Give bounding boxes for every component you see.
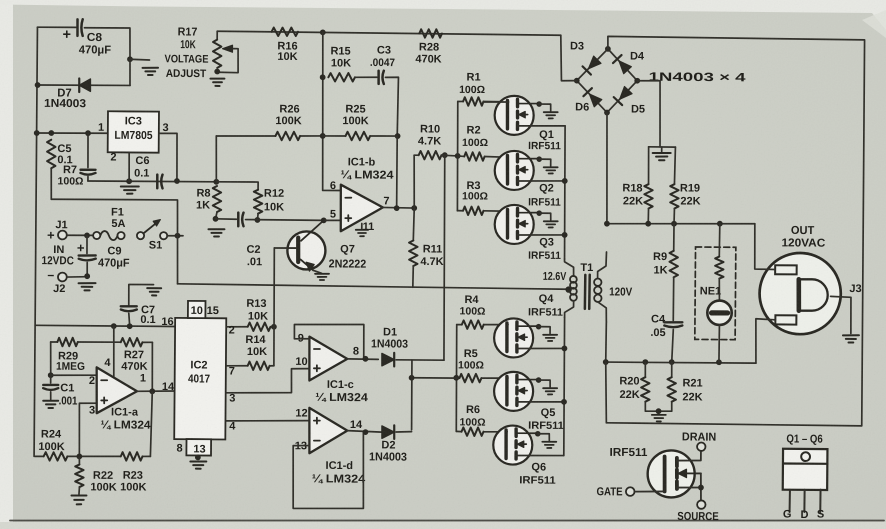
capacitor C9 — [86, 235, 88, 253]
connector gate — [626, 487, 635, 496]
dashed box NE1 — [695, 247, 736, 340]
diode D6 — [589, 94, 601, 107]
transistor Q6 IRF511 — [493, 425, 532, 464]
wire bridge top to outer loop — [605, 36, 865, 426]
wire J2 to ground node — [67, 276, 87, 279]
node R20 top — [642, 359, 648, 365]
wire junction to ground stub — [130, 58, 150, 61]
wire T1 secondary to output row — [605, 322, 608, 362]
capacitor C6 — [156, 175, 159, 189]
wire R14 to Q7 base column — [270, 365, 274, 367]
node source junction — [698, 485, 704, 491]
wire R20 R21 bottom bracket — [645, 401, 672, 411]
resistor R26 — [275, 132, 300, 141]
diode D1 — [382, 353, 394, 365]
ground R20 R21 — [652, 414, 666, 416]
node C4-R21 junction — [669, 359, 675, 365]
wire R26 row — [215, 136, 218, 182]
neon lamp NE1 — [718, 279, 720, 301]
wire R12 bottom — [256, 214, 259, 220]
wire R28 to bridge left — [560, 35, 577, 81]
wire R19 bottom — [673, 209, 675, 224]
wire V+ rail to IC2 pin16 — [35, 325, 175, 326]
resistor R21 — [671, 362, 673, 377]
wire R5 to Q5 — [481, 377, 507, 379]
fuse F1 — [93, 232, 100, 239]
node gate rail top — [455, 153, 461, 159]
node C9 top — [84, 232, 90, 238]
op-amp IC1-a — [96, 367, 137, 413]
ground Q7 — [315, 273, 329, 275]
wire D7 to C8 branch — [129, 59, 131, 85]
wire R3 to Q3 — [484, 210, 509, 212]
node rail-pin1 — [34, 130, 40, 136]
wire bridge right down — [637, 81, 661, 147]
node C3-R25 junction — [395, 133, 401, 139]
pot R17 wiper — [218, 49, 238, 73]
transistor Q7 — [287, 231, 325, 269]
wire IC1b output row — [383, 206, 414, 209]
capacitor C5 — [87, 133, 89, 167]
TO-220 leg S — [819, 490, 821, 512]
resistor R2 — [464, 152, 484, 161]
connector J2 — [58, 273, 67, 282]
wire R18 top — [647, 147, 649, 184]
resistor R4 — [462, 320, 484, 329]
resistor R18 — [644, 184, 653, 208]
resistor R6 — [461, 427, 483, 436]
node R12 bottom — [255, 217, 261, 223]
wire R29-R27 feedback row — [51, 341, 58, 343]
resistor R19 — [670, 184, 679, 208]
node R25 left — [320, 133, 326, 139]
wire R12 top — [216, 182, 258, 190]
ground IC3 pin2 — [121, 185, 139, 187]
page margin bottom — [0, 522, 886, 529]
resistor R14 — [248, 361, 270, 370]
node C7 bottom — [127, 323, 133, 329]
ground C8 right — [143, 67, 159, 69]
wire R8 bottom — [216, 212, 217, 219]
scan grain overlay — [0, 0, 1, 1]
node R22 top — [76, 454, 82, 460]
wire R7 bottom — [50, 168, 53, 199]
diode D3 — [589, 56, 601, 69]
node R5 branch — [409, 375, 415, 381]
wire R2 to Q2 — [485, 156, 509, 159]
wire C4 bottom — [672, 330, 674, 363]
transformer T1 secondary lead bottom — [598, 302, 607, 322]
wire IC1a pin 3 row — [79, 403, 97, 457]
wire bridge bottom down to feedback row — [606, 113, 608, 224]
wire R1 row — [458, 100, 463, 102]
transistor Q5 IRF511 — [494, 372, 533, 411]
page margin top — [0, 0, 886, 30]
wire R25 wires — [323, 135, 346, 137]
diode D5 — [620, 86, 632, 99]
wire IC1a pin 2 row — [51, 374, 97, 377]
wire bridge arms — [576, 49, 637, 113]
node IC1a output — [149, 388, 155, 394]
IRF511 channel — [675, 458, 679, 466]
wire R24 bottom row — [35, 455, 44, 457]
capacitor C7 — [129, 284, 154, 305]
wire IC1c pin9 feedback loop — [294, 324, 364, 359]
node R18 bottom — [645, 221, 651, 227]
capacitor C2 — [237, 213, 240, 227]
node IC1b pin5 / Q7 collector — [321, 217, 327, 223]
node IC1d output — [363, 429, 369, 435]
wire R9 to C4 — [672, 277, 674, 320]
wire R29 branch down to C1 node — [49, 342, 52, 375]
node R20R21 ground — [656, 408, 662, 414]
connector source — [697, 500, 705, 508]
wire drive column to D1 row — [443, 155, 445, 360]
node IC1a pin4 branch — [111, 323, 117, 329]
node NE1 top — [717, 221, 723, 227]
node top rail to R15 — [320, 29, 326, 35]
resistor R28 — [419, 29, 442, 38]
IRF511 gate bar — [662, 457, 666, 492]
wire R5 row from junction — [412, 377, 460, 379]
wire Q4-Q6 source rail — [563, 317, 564, 455]
wire C2 row — [216, 218, 237, 220]
wire IC1b pin6 column — [322, 32, 342, 190]
node IC1c output — [363, 356, 369, 362]
IC3 LM7805 box — [108, 111, 159, 152]
node IC2 ground — [195, 454, 201, 460]
resistor R3 — [463, 206, 484, 215]
receptacle J3 outlet — [759, 253, 841, 335]
wire gate rail R4-R6 — [456, 325, 457, 432]
ground C1 — [43, 400, 58, 402]
resistor NE1 series — [715, 257, 724, 279]
TO-220 mounting hole — [801, 452, 810, 461]
wire 5V row under IC3 — [88, 181, 216, 182]
connector J1 — [58, 231, 67, 240]
node C8-D7 junction — [127, 56, 133, 62]
node C1 top — [48, 372, 54, 378]
wire R23 to output — [150, 391, 152, 456]
wire IC3 pin1 row — [37, 132, 108, 135]
ground C7 — [147, 287, 161, 289]
wire Q7 base column — [273, 248, 274, 366]
node output row left — [603, 359, 609, 365]
node bridge bottom — [604, 110, 610, 116]
wire R2 stub — [458, 155, 465, 158]
ground J3 — [843, 334, 859, 336]
capacitor C1 — [50, 375, 52, 383]
wire IC2 pin4 to IC1d pin12 — [226, 420, 309, 422]
Q7 base bar — [296, 238, 301, 262]
switch S1 — [137, 232, 144, 239]
node R19 bottom — [671, 221, 677, 227]
Q7 emitter lead — [300, 259, 313, 270]
ground IC2 — [190, 460, 206, 462]
node feedback row left — [604, 221, 610, 227]
wire IC1a pin 4 — [112, 326, 115, 377]
IRF511 substrate arrow — [683, 472, 701, 474]
node Q5 source — [561, 399, 567, 405]
wire IC1d output — [347, 431, 382, 432]
capacitor C3 — [377, 71, 380, 84]
wire R15 to C3 — [355, 76, 377, 78]
wire R9 column top — [673, 224, 675, 251]
transformer T1 core — [584, 275, 587, 309]
wire IC2 tab to ground — [197, 455, 200, 459]
wire R18 bottom — [647, 209, 649, 224]
wire IC2 pin 2 row — [226, 326, 247, 328]
transformer T1 primary winding — [570, 276, 577, 283]
node C5 top — [85, 130, 91, 136]
resistor R23 — [121, 452, 143, 461]
wire S1 to node — [167, 235, 183, 237]
resistor R29 — [57, 338, 77, 347]
wire IC3 pin 2 — [128, 152, 130, 181]
wire S1 node down to 12V run — [176, 236, 179, 284]
wire Q7 emitter to ground — [313, 270, 321, 273]
wire R10 left stub — [414, 154, 418, 156]
wire NE1 bottom — [718, 325, 720, 362]
resistor R10 — [419, 151, 442, 160]
node bridge right — [634, 78, 640, 84]
ground R17 — [210, 78, 224, 80]
wire R10-R2 row — [441, 154, 457, 157]
TO-220 leg D — [803, 490, 805, 512]
IC1b pin 11 ground — [361, 223, 363, 228]
node output-R10R11 — [411, 205, 417, 211]
op-amp IC1-b — [340, 185, 383, 232]
resistor R9 — [669, 251, 678, 277]
op-amp IC1-c — [309, 337, 347, 381]
resistor R27 — [121, 338, 143, 347]
node C6 right — [174, 178, 180, 184]
node D7 left — [35, 82, 41, 88]
transformer T1 secondary lead top — [598, 252, 607, 279]
wire C3 to column — [385, 77, 398, 136]
J3 upper slot — [775, 265, 797, 274]
wire +12V left rail — [34, 27, 37, 456]
IRF511 pinout figure — [647, 450, 694, 497]
wire D2 to junction column — [396, 431, 412, 434]
wire output bottom row — [606, 362, 756, 363]
node R5 left rail — [453, 375, 459, 381]
wire Q1-Q3 source rail — [564, 126, 566, 259]
ground bridge divider — [661, 147, 663, 151]
ground R22 — [71, 494, 86, 496]
wire gate rail R1-R3 — [457, 102, 458, 211]
node R13-R14 junction — [271, 324, 277, 330]
node R7 top — [48, 130, 54, 136]
transformer T1 primary lead top — [564, 259, 573, 276]
resistor R20 — [644, 362, 646, 377]
wire NE1 column top — [718, 224, 721, 257]
wire IC3 pin3 to C6 node — [159, 133, 178, 181]
resistor R1 — [463, 97, 483, 106]
wire J1 to fuse — [67, 234, 93, 236]
resistor R12 — [254, 190, 263, 214]
node Q2 source — [562, 178, 568, 184]
wire J3 ground lead — [830, 296, 851, 333]
wire D1-D2 junction column — [410, 360, 413, 430]
IC2 4017 box — [174, 318, 226, 440]
transformer T1 secondary winding — [594, 278, 601, 285]
IRF511 gate lead — [635, 490, 665, 493]
resistor R13 — [248, 322, 271, 331]
resistor R15 — [328, 73, 355, 82]
node output-C3 — [394, 205, 400, 211]
wire R22 bottom — [78, 487, 80, 494]
wire IC1d pin13 feedback loop — [293, 432, 364, 509]
J3 D-shaped ground slot — [796, 279, 801, 310]
wire R6 row — [456, 430, 461, 432]
node bridge top — [605, 46, 611, 52]
wire feedback row to J3 top — [754, 224, 775, 270]
node Q3 source — [562, 232, 568, 238]
op-amp IC1-d — [309, 408, 347, 454]
diode D7 — [79, 79, 90, 91]
wire J3 bottom slot to output row — [756, 319, 776, 364]
Q7 base lead — [274, 247, 296, 249]
node Q4 source — [562, 346, 568, 352]
wire R18 R19 top bracket — [649, 146, 676, 148]
IC2 top tab — [188, 301, 206, 318]
node NE1 bottom — [716, 359, 722, 365]
wire 12V center-tap run — [178, 284, 569, 289]
capacitor C4 — [664, 321, 682, 324]
wire D1 to drive column — [396, 359, 444, 361]
page margin left — [0, 0, 13, 529]
figure bottom border — [10, 514, 884, 528]
node R8 bottom — [213, 216, 219, 222]
resistor R17 voltage adjust pot — [216, 31, 218, 39]
wire IC1a output row — [137, 390, 175, 393]
node T1 center tap — [565, 286, 571, 292]
transistor Q4 IRF511 — [494, 318, 533, 357]
diode D2 — [382, 426, 394, 438]
wire R19 top — [673, 147, 676, 184]
resistor R8 — [213, 186, 222, 212]
transformer T1 primary lead bottom — [565, 301, 574, 318]
wire feedback row — [607, 223, 755, 225]
IRF511 drain lead — [677, 451, 701, 461]
connector drain — [697, 443, 705, 451]
wire pin5 to op-amp — [324, 219, 341, 221]
node R10 right — [442, 152, 448, 158]
wire D7 row — [38, 85, 130, 86]
wire R10 left riser — [413, 155, 416, 208]
node pin2 ground junction — [126, 178, 132, 184]
wire top rail R16-R28 — [217, 31, 561, 35]
wire R7 branch row — [51, 199, 178, 236]
resistor R11 — [412, 208, 415, 240]
wire IC2 pin3 to IC1c pin10 — [226, 368, 309, 393]
TO-220 leg G — [789, 490, 791, 512]
resistor R5 — [459, 374, 481, 383]
wire R4 row — [457, 324, 462, 326]
resistor R24 — [44, 452, 68, 461]
ground R8 — [208, 228, 224, 230]
wire R27 to output — [151, 342, 154, 391]
resistor R25 — [345, 132, 370, 141]
node R15 left — [320, 74, 326, 80]
transistor Q1 IRF511 — [495, 96, 534, 135]
IC2 bottom tab — [186, 439, 211, 455]
diode D4 — [619, 61, 631, 74]
wire C8 top row — [37, 26, 75, 28]
resistor R16 — [272, 27, 298, 36]
node R17 bottom — [214, 69, 220, 75]
Q7 collector lead — [301, 220, 324, 241]
wire IC2 pin 7 row — [226, 365, 247, 367]
resistor R7 — [47, 140, 56, 169]
transistor Q2 IRF511 — [495, 151, 534, 190]
TO-220 package body — [783, 449, 828, 490]
wire IC1c output — [347, 358, 378, 361]
wire R3 stub — [457, 210, 463, 212]
ground C9 — [79, 282, 96, 284]
transistor Q3 IRF511 — [495, 205, 534, 244]
node C9 bottom — [84, 273, 90, 279]
TO-220 tab divider — [783, 462, 827, 465]
wire C3 column to output — [396, 136, 399, 208]
node S1 output — [175, 233, 181, 239]
wire T1 secondary bottom to big loop — [605, 362, 607, 423]
node R8 top — [213, 179, 219, 185]
IRF511 source lead — [677, 486, 701, 488]
node bridge left — [574, 78, 580, 84]
wire C8 right to junction — [84, 28, 130, 60]
resistor R22 — [78, 456, 80, 464]
J3 lower slot — [775, 315, 796, 324]
